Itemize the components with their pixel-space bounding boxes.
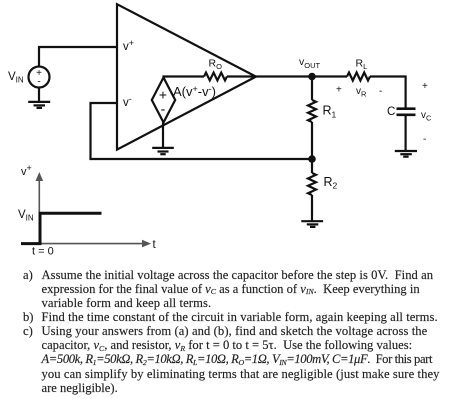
pin label v+ <box>123 38 134 53</box>
wire VIN to ground <box>38 88 40 102</box>
label + vR - <box>336 85 382 99</box>
wire VIN to v+ input <box>39 47 117 67</box>
capacitor C <box>397 109 416 115</box>
svg-text:t: t <box>153 239 157 251</box>
wire R1 to junction <box>311 122 313 159</box>
ground (VIN) <box>28 102 50 108</box>
ground (dependent source) <box>152 123 174 155</box>
svg-text:t = 0: t = 0 <box>32 246 54 258</box>
label R2 <box>324 175 338 191</box>
wire RL to capacitor <box>370 77 406 109</box>
svg-text:RO: RO <box>209 57 223 71</box>
wire VOUT to R1 <box>311 77 313 101</box>
node VOUT <box>308 73 316 81</box>
wire R2 to ground <box>311 195 313 221</box>
svg-text:VIN: VIN <box>8 71 24 85</box>
resistor R2 <box>308 173 316 195</box>
svg-text:R2: R2 <box>324 175 338 191</box>
svg-text:+: + <box>422 81 428 92</box>
svg-text:vC: vC <box>421 110 432 123</box>
graph v-axis <box>38 176 40 244</box>
graph step waveform <box>21 213 102 243</box>
svg-text:v+: v+ <box>123 38 134 53</box>
label Ro <box>209 57 223 71</box>
node R1/R2 junction <box>308 155 316 163</box>
graph label t <box>153 239 157 251</box>
svg-text:R1: R1 <box>323 104 337 120</box>
ground (capacitor) <box>395 151 417 157</box>
svg-text:A(v+-v-): A(v+-v-) <box>173 84 216 99</box>
label R1 <box>323 104 337 120</box>
svg-text:v+: v+ <box>21 163 32 178</box>
wire dependent source to Ro <box>164 77 205 78</box>
op-amp U1 <box>117 4 256 149</box>
svg-text:VIN: VIN <box>18 209 34 223</box>
voltage source VIN <box>29 67 50 88</box>
pin label v- <box>123 94 132 109</box>
svg-text:v-: v- <box>123 94 132 109</box>
graph t-axis <box>21 243 147 245</box>
svg-text:-: - <box>423 134 426 145</box>
label VOUT <box>299 56 321 70</box>
svg-text:-: - <box>37 77 40 88</box>
graph label v+ <box>21 163 32 178</box>
svg-text:-: - <box>161 101 166 117</box>
ground (R2) <box>301 221 323 227</box>
label C <box>387 106 395 118</box>
dependent source A(v+-v-) <box>152 78 175 123</box>
svg-text:C: C <box>387 106 395 118</box>
label VIN <box>8 71 24 85</box>
wire feedback junction to v- input <box>91 103 313 159</box>
wire capacitor to ground <box>405 116 407 151</box>
svg-text:+: + <box>336 85 342 96</box>
resistor R1 <box>308 100 316 122</box>
label + vc - <box>421 81 432 145</box>
graph label VIN <box>18 209 34 223</box>
graph label t = 0 <box>32 246 54 258</box>
svg-text:RL: RL <box>356 57 368 71</box>
svg-text:vR: vR <box>356 86 367 99</box>
svg-text:-: - <box>379 86 382 97</box>
resistor Ro <box>204 73 227 81</box>
label RL <box>356 57 368 71</box>
label A(v+-v-) <box>173 84 216 99</box>
svg-text:vOUT: vOUT <box>299 56 321 70</box>
resistor RL <box>347 73 370 81</box>
wire Ro to output node VOUT <box>227 75 347 77</box>
wire junction to R2 <box>311 159 313 173</box>
